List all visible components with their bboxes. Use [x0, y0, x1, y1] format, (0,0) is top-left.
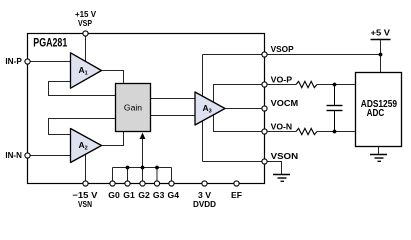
- wire VO-N stub from A3: [214, 112, 263, 132]
- terminal DVDD: [202, 181, 207, 186]
- terminal VSON: [262, 159, 267, 164]
- terminal G0: [110, 181, 115, 186]
- wire VO-P stub from A3: [214, 85, 263, 106]
- svg-text:PGA281: PGA281: [33, 36, 67, 50]
- svg-text:EF: EF: [231, 190, 242, 200]
- resistor (VO-P series): [296, 81, 317, 87]
- svg-text:VO-N: VO-N: [271, 121, 293, 131]
- svg-text:IN-N: IN-N: [5, 150, 22, 160]
- svg-text:G4: G4: [168, 190, 180, 200]
- svg-text:G2: G2: [138, 190, 150, 200]
- junction dot G1 bus: [126, 166, 130, 170]
- wire gain-select bus G0-G4: [113, 168, 172, 182]
- wire VO-N to ADC: [267, 131, 296, 133]
- svg-text:DVDD: DVDD: [193, 199, 216, 209]
- junction dot VO-N / capacitor: [333, 130, 337, 134]
- terminal VO-P: [262, 82, 267, 87]
- junction dot VO-P / capacitor: [333, 83, 337, 87]
- svg-text:IN-P: IN-P: [5, 56, 22, 66]
- terminal EF: [234, 181, 239, 186]
- terminal G2: [140, 181, 145, 186]
- svg-text:VOCM: VOCM: [271, 98, 299, 108]
- resistor (VO-N series): [296, 128, 317, 134]
- wire gain block to A3 lower input: [151, 115, 196, 117]
- op-amp A1: [71, 53, 102, 88]
- wire IN-P input: [29, 61, 71, 63]
- capacitor (differential filter): [327, 85, 343, 132]
- svg-text:VSN: VSN: [78, 199, 92, 209]
- wire A1 feedback (gain block to A1 inverting input): [49, 82, 116, 96]
- wire VSOP to +5V rail: [267, 54, 381, 56]
- terminal VSP: [83, 31, 88, 36]
- terminal VSOP: [262, 52, 267, 57]
- ground (VSON): [267, 162, 290, 182]
- wire VSN supply stub into A2: [85, 150, 87, 181]
- terminal VO-N: [262, 129, 267, 134]
- terminal IN-N: [25, 153, 30, 158]
- svg-text:ADC: ADC: [367, 108, 385, 119]
- wire A3 output VOCM: [225, 108, 262, 110]
- svg-text:Gain: Gain: [124, 103, 142, 113]
- svg-text:G0: G0: [108, 190, 120, 200]
- wire gain-select arrow into gain block: [142, 138, 144, 168]
- ADS1259 ADC: [356, 73, 402, 147]
- PGA281 device outline: [28, 34, 265, 184]
- wire A3 supply rail VSOP to VSON (passes behind A3): [202, 55, 204, 162]
- wire VSOP to pin: [203, 54, 263, 56]
- terminal VOCM: [262, 106, 267, 111]
- terminal IN-P: [25, 59, 30, 64]
- junction dot G2 bus: [141, 166, 145, 170]
- svg-text:VSON: VSON: [271, 151, 299, 161]
- wire VSON to pin: [203, 161, 263, 163]
- wire IN-N input: [29, 155, 71, 157]
- junction dot G3 bus: [155, 166, 159, 170]
- wire A2 feedback (gain block to A2 inverting input): [49, 119, 116, 135]
- wire A2 output to gain block: [102, 132, 124, 146]
- svg-text:G1: G1: [123, 190, 135, 200]
- op-amp A3: [195, 92, 225, 125]
- wire VO-P to ADC: [267, 84, 296, 86]
- supply +5 V: [371, 27, 391, 72]
- terminal G1: [125, 181, 130, 186]
- ground (ADS1259): [370, 147, 387, 162]
- terminal G3: [154, 181, 159, 186]
- wire A1 output to gain block: [102, 71, 124, 84]
- svg-text:VO-P: VO-P: [271, 74, 293, 84]
- svg-text:+5 V: +5 V: [371, 27, 391, 37]
- svg-text:G3: G3: [153, 190, 165, 200]
- terminal G4: [169, 181, 174, 186]
- wire VSP supply stub into A1: [85, 36, 87, 64]
- terminal VSN: [83, 181, 88, 186]
- op-amp A2: [71, 129, 102, 163]
- svg-text:VSOP: VSOP: [271, 44, 294, 54]
- gain block: [116, 84, 151, 132]
- svg-text:VSP: VSP: [78, 18, 92, 28]
- wire gain block to A3 upper input: [151, 98, 196, 100]
- junction dot +5V / VSOP: [379, 53, 383, 57]
